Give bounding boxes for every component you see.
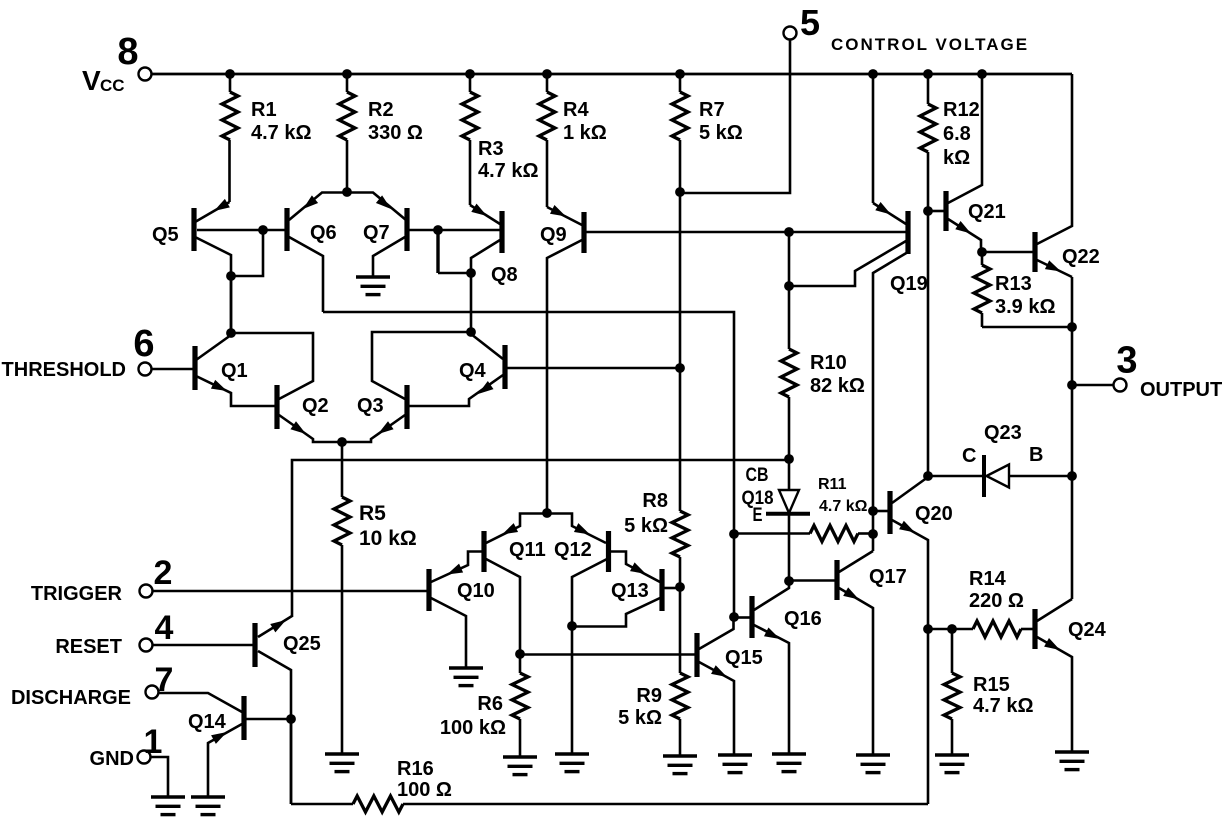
wire Q12 base to Q13 emitter [610,552,660,583]
wire Q24 collector [1037,599,1072,621]
transistor Q16 [749,596,754,638]
wire Q20 emitter [892,520,928,629]
transistor Q3 [404,385,409,429]
junction Q23 anode node [923,471,933,481]
svg-text:B: B [1029,444,1043,466]
junction Q8 base tie [433,225,443,235]
resistor R7 [679,74,682,92]
svg-text:6.8: 6.8 [943,123,971,145]
svg-text:5: 5 [800,2,820,43]
resistor R9 [672,673,688,719]
svg-text:Q25: Q25 [283,633,321,655]
svg-text:5 kΩ: 5 kΩ [699,122,743,144]
ground Q17 [856,753,890,756]
wire R12 node down to Q23 node [927,211,930,476]
wire Q14 base [246,718,291,721]
svg-text:R16: R16 [397,758,434,780]
node R2 bottom [342,187,352,197]
svg-text:Q7: Q7 [363,222,390,244]
wire Q7 base to Q8 base [409,229,500,232]
resistor R11 [734,532,810,535]
transistor Q19 [905,211,910,254]
wire Q6 collector bus [323,312,734,617]
transistor Q2 [274,385,279,429]
junction on VCC rail at R12 [923,69,933,79]
svg-text:3: 3 [1116,340,1137,382]
transistor Q22 [1032,232,1037,272]
wire Q21 collector [948,74,982,203]
svg-text:R4: R4 [563,99,589,121]
wire Q23 left [928,475,982,478]
wire Q17 emitter to ground [839,588,873,755]
wire pin 6 to Q1 base [151,368,194,371]
wire Q8 diode tie [438,272,471,275]
wire Q22 base [982,251,1033,254]
junction Q11 Q12 emitters [542,508,552,518]
wire Q10 collector to ground [431,598,466,668]
resistor R14 [928,628,973,631]
svg-text:4.7 kΩ: 4.7 kΩ [819,498,868,515]
resistor R8 [672,511,688,557]
wire Q13 collector [572,598,660,627]
ground Q16 [772,752,806,755]
junction on VCC rail at Q21 collector [977,69,987,79]
wire Q20 base [873,510,888,513]
junction Q5 collector [226,271,236,281]
svg-text:Q2: Q2 [302,395,329,417]
transistor Q11 [481,531,486,572]
pin 6 terminal [139,363,152,376]
wire pin 1 to ground [150,757,168,797]
svg-text:5 kΩ: 5 kΩ [624,515,668,537]
ground Q7 [356,275,390,278]
svg-text:Q3: Q3 [357,395,384,417]
wire R13 bottom to output [982,326,1072,329]
wire Q11 collector [486,559,520,654]
transistor Q7 [404,208,409,251]
wire R4 to Q9 emitter [547,207,582,225]
svg-text:4.7 kΩ: 4.7 kΩ [251,122,312,144]
pin 7 terminal [146,686,159,699]
transistor Q5 [191,208,196,251]
svg-text:5 kΩ: 5 kΩ [618,707,662,729]
junction on VCC rail at R4 [542,69,552,79]
transistor Q20 [887,491,892,534]
resistor R15 [951,629,954,673]
junction R10 bottom [784,454,794,464]
svg-text:CC: CC [100,76,125,95]
svg-text:DISCHARGE: DISCHARGE [11,687,131,709]
svg-text:CONTROL VOLTAGE: CONTROL VOLTAGE [831,35,1029,54]
wire Q11 collector to Q15 base [520,653,695,656]
junction Q18 cathode Q17 base [784,576,794,586]
junction Q21 emitter R13 Q22 base [977,247,987,257]
junction Q4 base node [675,363,685,373]
wire Q2 collector [231,333,313,399]
svg-text:Q24: Q24 [1068,619,1107,641]
svg-text:C: C [962,445,976,467]
wire to Q12 emitter [548,514,606,544]
pin 4 terminal [140,639,153,652]
diode Q23 [982,455,986,497]
transistor Q12 [606,531,611,572]
transistor Q8 [499,211,504,253]
svg-text:Q20: Q20 [915,503,953,525]
svg-text:8: 8 [117,31,138,73]
svg-text:4: 4 [155,609,174,647]
ground Q15 [718,753,752,756]
wire bottom rail left [290,718,293,804]
node VCC rail [151,73,1072,76]
wire Q19 collector A [789,241,906,286]
wire Q20 collector [892,477,928,503]
svg-text:R12: R12 [943,99,980,121]
wire Q21 emitter [948,219,981,252]
junction Q15 collector Q16 base [729,612,739,622]
diode Q18 [779,490,799,513]
wire Q1 collector [196,335,231,360]
resistor R13 [981,252,984,265]
svg-text:Q4: Q4 [459,360,487,382]
wire R3 to Q8 emitter [470,205,500,224]
wire Q4 emitter to Q3 base [409,375,503,406]
svg-text:R6: R6 [477,693,503,715]
junction Q11 collector node [515,649,525,659]
svg-text:R7: R7 [699,99,725,121]
wire pin 7 to Q14 collector [158,693,242,712]
svg-text:Q8: Q8 [491,264,518,286]
wire pin 2 to Q10 base [152,590,427,593]
wire Q5 node to Q1 node [230,276,233,333]
junction on VCC rail at R3 [465,69,475,79]
svg-text:1: 1 [144,723,163,761]
junction Q23 base side [1067,471,1077,481]
transistor Q13 [659,569,664,611]
transistor Q15 [694,633,699,677]
wire Q24 emitter to ground [1037,637,1072,752]
transistor Q17 [834,560,839,600]
junction on VCC rail at Q19 emitter [868,69,878,79]
svg-text:GND: GND [90,748,134,770]
junction Q2 Q3 emitters [337,437,347,447]
wire Q10 emitter to Q11 base [431,552,482,583]
ground R9 [663,754,697,757]
svg-text:Q10: Q10 [457,580,495,602]
svg-text:1 kΩ: 1 kΩ [563,122,607,144]
wire to Q11 emitter [486,514,548,544]
transistor Q1 [192,346,197,390]
wire Q15 collector [699,618,734,649]
svg-text:CB: CB [746,465,769,486]
wire Q5 diode tie [231,230,263,276]
junction R11 left [729,529,739,539]
svg-text:10 kΩ: 10 kΩ [359,527,417,550]
wire Q4 base [507,367,678,370]
svg-text:Q19: Q19 [890,273,928,295]
ground R5 [325,752,359,755]
svg-text:R2: R2 [368,99,394,121]
svg-text:V: V [82,65,101,96]
junction Q19 collector A to R10 [784,281,794,291]
transistor Q21 [943,191,948,231]
svg-text:3.9 kΩ: 3.9 kΩ [995,296,1056,318]
resistor R6 [519,654,522,673]
wire to pin 3 [1072,384,1113,387]
wire R2 node to Q6 emitter [289,193,347,221]
junction R13 output node [1067,322,1077,332]
wire Q21 base [930,210,944,213]
transistor Q25 [252,623,257,667]
wire R2 node to Q7 emitter [347,193,406,221]
ground R6 [503,755,537,758]
wire R1 to Q5 emitter [195,202,230,222]
wire Q13 base [664,587,678,590]
svg-text:2: 2 [154,554,173,592]
svg-text:OUTPUT: OUTPUT [1140,379,1222,401]
transistor Q4 [502,345,507,389]
svg-text:Q23: Q23 [984,422,1022,444]
transistor Q14 [241,696,246,740]
ground Q14 [191,795,225,798]
wire collectors to ground [571,626,574,754]
resistor R12 [927,74,930,104]
junction Q20 base [868,506,878,516]
svg-text:Q6: Q6 [310,222,337,244]
ground pin 1 [151,795,185,798]
svg-text:Q13: Q13 [611,580,649,602]
transistor Q10 [426,569,431,611]
svg-text:Q5: Q5 [152,224,179,246]
wire Q2 emitter [279,415,342,442]
pin 3 terminal [1114,379,1127,392]
svg-text:RESET: RESET [55,636,122,658]
wire R10 to Q18 [788,459,791,490]
resistor R10 [788,232,791,349]
wire Q6 collector [289,237,323,312]
pin 8 VCC terminal [139,68,152,81]
svg-text:Q12: Q12 [554,539,592,561]
junction R14 node [923,624,933,634]
wire Q16 base [736,616,750,619]
wire Q17 base [790,579,835,582]
wire Q3 collector [372,332,471,399]
svg-text:4.7 kΩ: 4.7 kΩ [973,695,1034,717]
svg-text:Q17: Q17 [869,566,907,588]
wire pin 5 to divider [680,40,790,194]
junction Q8 collector [466,268,476,278]
wire Q16 collector [754,582,789,611]
resistor R4 [546,74,549,92]
junction R12 Q21 base [923,206,933,216]
transistor Q24 [1032,609,1037,649]
wire Q7 collector to ground [373,237,405,277]
svg-text:Q22: Q22 [1062,246,1100,268]
junction control voltage node [675,187,685,197]
wire Q3 emitter [342,415,405,442]
junction Q12 Q13 collectors [567,621,577,631]
junction Q1 collector node [226,328,236,338]
svg-text:Q9: Q9 [540,224,567,246]
junction on VCC rail at R2 [342,69,352,79]
transistor Q9 [581,212,586,253]
wire Q25 collector up [258,616,292,637]
wire Q17 collector [839,551,873,572]
junction on VCC rail at R1 [225,69,235,79]
svg-text:kΩ: kΩ [943,147,970,169]
wire Q12 collector [572,559,607,626]
svg-text:R13: R13 [995,273,1032,295]
resistor R3 [469,74,472,92]
svg-text:100 kΩ: 100 kΩ [440,717,506,739]
svg-text:220 Ω: 220 Ω [969,590,1024,612]
svg-text:R15: R15 [973,674,1010,696]
transistor Q6 [284,208,289,251]
ground R15 [935,753,969,756]
pin 1 terminal [138,751,151,764]
wire Q22 emitter [1037,260,1072,277]
junction on VCC rail at R7 [675,69,685,79]
junction R11 right [868,529,878,539]
svg-text:R11: R11 [818,476,847,493]
ground Q24 [1055,750,1089,753]
wire Q8 collector [471,240,500,332]
wire Q5 collector [195,237,231,334]
svg-text:E: E [753,505,763,526]
svg-text:82 kΩ: 82 kΩ [810,375,865,397]
wire Q9 base to Q19 base [586,231,906,234]
wire bottom rail right [927,629,930,804]
svg-text:R14: R14 [969,568,1007,590]
resistor R2 [346,74,349,92]
svg-text:R10: R10 [810,352,847,374]
wire Q1 emitter to Q2 base [196,376,275,406]
wire Q14 emitter to ground [208,724,242,797]
ground Q10 [449,666,483,669]
wire Q15 emitter to ground [699,662,734,755]
svg-text:R9: R9 [636,685,662,707]
pin 5 terminal [784,27,797,40]
wire Q25 emitter down [258,651,291,804]
wire Q16 emitter to ground [754,625,789,754]
pin 2 terminal [140,585,153,598]
wire Q22 collector [1037,74,1072,244]
svg-text:R5: R5 [359,502,386,525]
svg-text:R8: R8 [642,490,668,512]
svg-text:Q1: Q1 [221,360,248,382]
wire Q5 base to Q6 [197,229,286,232]
wire Q19 collector B [873,252,908,551]
junction Q13 base node [675,582,685,592]
svg-text:330 Ω: 330 Ω [368,122,423,144]
junction R15 node [947,624,957,634]
junction Q14 base node [286,714,296,724]
wire pin 4 to Q25 base [152,644,253,647]
svg-text:Q11: Q11 [509,539,546,561]
svg-text:Q16: Q16 [784,608,822,630]
svg-text:THRESHOLD: THRESHOLD [2,359,126,381]
junction Q4 collector node [466,327,476,337]
junction Q5 base tie [258,225,268,235]
svg-text:100 Ω: 100 Ω [397,779,452,801]
svg-text:Q21: Q21 [968,201,1006,223]
wire Q4 collector [471,334,503,359]
wire Q19 emitter [872,74,875,203]
ground Q12 Q13 [555,752,589,755]
wire flip-flop bus [292,460,789,617]
svg-text:TRIGGER: TRIGGER [31,583,123,605]
resistor R1 [229,74,232,92]
svg-text:4.7 kΩ: 4.7 kΩ [478,160,539,182]
wire output bus [1071,277,1074,599]
svg-text:Q14: Q14 [188,711,227,733]
resistor R5 [341,442,344,497]
wire Q9 collector [547,240,582,513]
svg-text:6: 6 [133,323,154,365]
junction output node [1067,380,1077,390]
svg-text:Q15: Q15 [725,647,763,669]
svg-text:R1: R1 [251,99,277,121]
junction R10 top [784,227,794,237]
svg-text:R3: R3 [478,138,504,160]
resistor R16 [291,803,353,806]
